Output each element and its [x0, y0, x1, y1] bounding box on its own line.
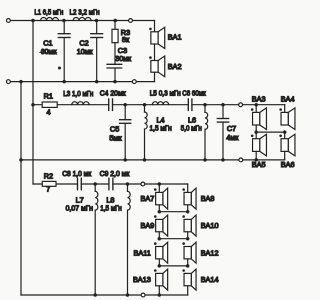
- wire bottom rail: [21, 294, 188, 296]
- speaker BA14: [184, 273, 191, 285]
- svg-text:BA4: BA4: [281, 95, 295, 104]
- svg-text:60мк: 60мк: [41, 47, 58, 56]
- node C1 rail: [62, 80, 66, 84]
- svg-text:5мк: 5мк: [109, 133, 122, 142]
- capacitor C7: [222, 105, 224, 119]
- svg-text:BA9: BA9: [141, 221, 155, 230]
- wire BA7 feed: [158, 184, 160, 192]
- wire BA2 to rail: [154, 72, 156, 81]
- node C5 tap: [123, 103, 127, 107]
- terminal MF top: [239, 103, 243, 107]
- capacitor C2: [96, 21, 98, 34]
- node tie left 3: [158, 264, 162, 268]
- svg-text:L5 0,3 мГн: L5 0,3 мГн: [150, 89, 181, 98]
- inductor L8 shunt: [127, 184, 129, 191]
- wire tie row 2: [159, 238, 187, 240]
- wire BA9 down: [158, 232, 160, 239]
- wire MF feed: [33, 104, 109, 106]
- speaker BA1: [154, 21, 156, 32]
- svg-text:BA3: BA3: [252, 95, 266, 104]
- node minus bus top: [19, 80, 23, 84]
- wire MF after C4: [113, 104, 189, 106]
- speaker BA9: [156, 219, 163, 231]
- svg-text:30мк: 30мк: [115, 54, 132, 63]
- wire HF after C8: [81, 183, 109, 185]
- speaker BA5: [255, 132, 257, 139]
- node C7 rail: [221, 158, 225, 162]
- node plus bus top tap: [31, 19, 35, 23]
- node L4 tap: [143, 103, 147, 107]
- svg-text:L3 1,0 мГн: L3 1,0 мГн: [63, 89, 93, 98]
- node C7 tap: [221, 103, 225, 107]
- wire minus bus: [20, 82, 22, 295]
- svg-text:BA13: BA13: [133, 275, 151, 284]
- svg-text:C8 1,0 мк: C8 1,0 мк: [62, 169, 92, 178]
- svg-text:BA10: BA10: [201, 221, 219, 230]
- resistor R3 8k: [114, 21, 116, 30]
- node L2 out: [95, 19, 99, 23]
- node BA7 chain top: [158, 182, 162, 186]
- svg-text:BA14: BA14: [201, 275, 219, 284]
- wire BA14 down: [187, 286, 189, 295]
- capacitor C3: [114, 43, 116, 64]
- inductor L6 shunt: [204, 105, 206, 113]
- svg-text:BA8: BA8: [201, 194, 215, 203]
- node L1-L2: [62, 19, 66, 23]
- speaker BA6: [284, 132, 286, 139]
- node L8 rail: [126, 293, 130, 297]
- node C3 rail: [113, 80, 117, 84]
- node L7 tap: [93, 182, 97, 186]
- wire MF after C6: [192, 104, 285, 106]
- node BA3 top: [254, 103, 258, 107]
- wire BA11 down: [158, 259, 160, 266]
- wire BA8 down: [187, 205, 189, 212]
- terminal MF bottom: [239, 158, 243, 162]
- node L8 tap: [126, 182, 130, 186]
- node L7 rail: [93, 293, 97, 297]
- svg-text:BA7: BA7: [141, 194, 155, 203]
- inductor L5: [152, 102, 168, 105]
- resistor R1 4 ohm: [42, 102, 57, 107]
- node R3 tap: [113, 19, 117, 23]
- svg-text:C6 60мк: C6 60мк: [182, 89, 206, 98]
- svg-text:R1: R1: [44, 92, 53, 101]
- wire BA3 to tie: [255, 125, 257, 132]
- wire MF bottom rail: [21, 159, 285, 161]
- capacitor C9: [108, 178, 110, 189]
- wire HF feed: [33, 183, 78, 185]
- terminal HF top: [141, 182, 145, 186]
- speaker BA11: [156, 247, 163, 259]
- svg-text:0,07 мГн: 0,07 мГн: [66, 203, 93, 212]
- svg-text:BA11: BA11: [133, 248, 150, 257]
- resistor R2 7 ohm: [42, 181, 56, 186]
- node L6 tap: [203, 103, 207, 107]
- node tie left 2: [158, 237, 162, 241]
- wire BA1-BA2: [154, 44, 156, 61]
- svg-text:4: 4: [46, 108, 50, 117]
- wire BA13 down: [158, 286, 160, 295]
- speaker BA12: [184, 247, 191, 259]
- wire BA7 down: [158, 205, 160, 212]
- svg-text:8к: 8к: [122, 35, 130, 44]
- svg-text:C4 20мк: C4 20мк: [100, 88, 127, 97]
- speaker BA8: [184, 192, 191, 204]
- capacitor C8: [77, 178, 79, 189]
- wire plus bus: [32, 21, 34, 185]
- speaker BA2: [151, 61, 158, 73]
- node C5 rail: [123, 158, 127, 162]
- wire tie row 3: [159, 265, 187, 267]
- node L4 rail: [143, 158, 147, 162]
- inductor L2: [73, 18, 91, 21]
- wire tie row 1: [159, 211, 187, 213]
- node tie right 1: [186, 210, 190, 214]
- node tie right 2: [186, 237, 190, 241]
- stray print dot: [58, 67, 61, 70]
- svg-text:BA6: BA6: [281, 160, 295, 169]
- svg-text:R2: R2: [44, 171, 53, 180]
- wire BA12 down: [187, 259, 189, 266]
- inductor L4 shunt: [144, 105, 146, 112]
- wire HF after C9: [113, 183, 188, 185]
- terminal LF minus rail: [132, 80, 136, 84]
- wire BA8 feed: [187, 184, 189, 192]
- svg-text:5,0 мГн: 5,0 мГн: [181, 123, 202, 132]
- svg-text:4мк: 4мк: [226, 133, 239, 142]
- svg-text:C9 2,0 мк: C9 2,0 мк: [100, 169, 130, 178]
- input terminal minus: [6, 80, 10, 84]
- svg-text:1,5 мГн: 1,5 мГн: [100, 203, 121, 212]
- node BA3 tie: [254, 130, 258, 134]
- speaker BA7: [156, 192, 163, 204]
- svg-text:BA1: BA1: [168, 33, 182, 42]
- input terminal plus: [6, 19, 10, 23]
- svg-text:7: 7: [46, 185, 50, 194]
- wire BA10 down: [187, 232, 189, 239]
- node C2 rail: [95, 80, 99, 84]
- node minus bus MF rail: [19, 158, 23, 162]
- node BA4 tie: [283, 130, 287, 134]
- svg-text:BA5: BA5: [252, 160, 266, 169]
- node tie left 1: [158, 210, 162, 214]
- inductor L7 shunt: [94, 184, 96, 191]
- svg-text:10мк: 10мк: [77, 47, 94, 56]
- capacitor C1: [63, 21, 65, 34]
- svg-text:1,5 мГн: 1,5 мГн: [150, 123, 172, 132]
- speaker BA3: [255, 105, 257, 113]
- capacitor C6: [187, 99, 189, 110]
- node plus bus R1 tap: [31, 103, 35, 107]
- terminal top rail: [129, 19, 133, 23]
- inductor L1: [41, 18, 59, 21]
- strike mark through 60mk: [40, 52, 57, 54]
- svg-text:C5: C5: [110, 124, 119, 133]
- node L6 rail: [203, 158, 207, 162]
- terminal HF bottom: [141, 293, 145, 297]
- wire top rail: [10, 20, 154, 22]
- svg-text:L2 3,2 мГн: L2 3,2 мГн: [70, 8, 100, 17]
- wire LF minus rail: [10, 81, 154, 83]
- svg-text:L1 6,5 мГн: L1 6,5 мГн: [34, 8, 63, 17]
- capacitor C4: [108, 99, 110, 110]
- speaker BA4: [284, 105, 286, 113]
- svg-text:C7: C7: [227, 124, 236, 133]
- svg-text:BA2: BA2: [168, 62, 182, 71]
- capacitor C5: [124, 105, 126, 120]
- node BA13 rail: [158, 293, 162, 297]
- node tie right 3: [186, 264, 190, 268]
- speaker BA10: [184, 219, 191, 231]
- speaker BA13: [156, 273, 163, 285]
- wire MF tie: [256, 131, 285, 133]
- svg-text:BA12: BA12: [201, 248, 219, 257]
- inductor L3: [72, 102, 89, 105]
